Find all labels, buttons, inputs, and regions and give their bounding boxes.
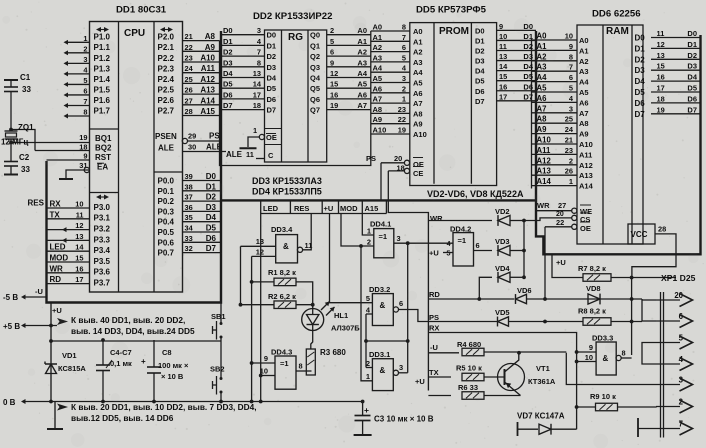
XP1 pin 5 — [656, 342, 680, 344]
svg-text:P3.3: P3.3 — [94, 235, 111, 244]
wire DD4.2 pin5 — [443, 252, 453, 254]
wire DD2 Q1 — [327, 44, 371, 46]
svg-text:P2.1: P2.1 — [158, 43, 175, 52]
bus top run to right — [221, 199, 536, 201]
svg-text:36: 36 — [185, 203, 193, 212]
svg-text:A0: A0 — [537, 32, 548, 41]
svg-text:38: 38 — [185, 182, 193, 191]
svg-text:Q6: Q6 — [310, 95, 320, 104]
svg-text:10: 10 — [499, 32, 507, 41]
svg-text:XP1 D25: XP1 D25 — [661, 273, 696, 283]
svg-text:DD3.1: DD3.1 — [369, 350, 390, 359]
svg-text:D4: D4 — [475, 67, 485, 76]
wire riser to RAM OE — [544, 227, 546, 299]
wire P1.1 pin 2 — [68, 52, 90, 54]
svg-text:A6: A6 — [373, 84, 383, 93]
wire DD2 D5 — [221, 87, 265, 89]
svg-text:D2: D2 — [223, 48, 233, 57]
svg-text:D5: D5 — [206, 224, 217, 233]
svg-text:P0.4: P0.4 — [158, 218, 175, 227]
svg-text:VD4: VD4 — [495, 264, 510, 273]
wire DD5 D1 — [497, 39, 536, 41]
wire A11 pin 24 — [183, 72, 220, 74]
svg-text:RX: RX — [429, 324, 439, 333]
svg-text:3: 3 — [569, 104, 573, 113]
svg-text:32: 32 — [185, 244, 193, 253]
svg-text:A0: A0 — [579, 36, 589, 45]
DD2 box — [265, 30, 327, 162]
svg-text:RD: RD — [429, 290, 440, 299]
wire P3.3 pin 13 — [47, 239, 90, 241]
svg-text:5: 5 — [330, 37, 334, 46]
svg-text:LED: LED — [263, 204, 279, 213]
wire DD2 D4 — [221, 77, 265, 79]
svg-text:1: 1 — [367, 227, 371, 236]
wire DD6 D6 — [651, 102, 701, 104]
LED HL1 AL307B — [302, 309, 324, 331]
svg-text:VT1: VT1 — [536, 364, 550, 373]
svg-text:10: 10 — [585, 353, 593, 362]
svg-text:23: 23 — [185, 54, 193, 63]
svg-text:15: 15 — [330, 80, 338, 89]
wire DD5 A1 — [371, 40, 410, 42]
XP1 pin 4 — [656, 363, 680, 365]
svg-text:D2: D2 — [267, 52, 277, 61]
svg-text:D1: D1 — [687, 40, 697, 49]
svg-text:A3: A3 — [357, 58, 367, 67]
svg-text:13: 13 — [253, 69, 261, 78]
wire DD6 D1 — [651, 47, 701, 49]
svg-text:A6: A6 — [357, 90, 367, 99]
svg-text:RAM: RAM — [606, 26, 629, 37]
svg-text:14: 14 — [499, 62, 508, 71]
svg-text:PS: PS — [366, 154, 376, 163]
svg-text:19: 19 — [330, 101, 338, 110]
svg-text:A5: A5 — [373, 74, 383, 83]
svg-text:35: 35 — [185, 213, 193, 222]
svg-text:A6: A6 — [579, 98, 589, 107]
svg-text:5: 5 — [402, 53, 406, 62]
svg-text:27: 27 — [185, 96, 193, 105]
svg-text:8: 8 — [569, 52, 573, 61]
wire to DD2 C pin 11 — [256, 158, 265, 160]
svg-text:выв. 14 DD3, DD4, выв.24 DD5: выв. 14 DD3, DD4, выв.24 DD5 — [71, 326, 195, 336]
svg-text:8: 8 — [83, 108, 87, 117]
svg-text:5: 5 — [83, 76, 87, 85]
jumper XP1 5-4 — [642, 343, 656, 365]
wire P1.6 pin 7 — [68, 104, 90, 106]
svg-text:20: 20 — [394, 154, 402, 163]
wire DD5 D2 — [497, 50, 536, 52]
svg-text:&: & — [380, 366, 386, 375]
svg-text:R6 33: R6 33 — [458, 383, 478, 392]
wire DD2 Q0 — [327, 34, 371, 36]
svg-text:12 МГц: 12 МГц — [1, 138, 28, 147]
wire A8 pin 21 — [183, 40, 220, 42]
wire A10 pin 23 — [183, 61, 220, 63]
svg-text:1: 1 — [83, 34, 87, 43]
wire P3.7 pin 17 — [47, 283, 90, 285]
wire LED drop — [260, 214, 262, 402]
svg-text:19: 19 — [398, 126, 406, 135]
svg-text:A2: A2 — [373, 43, 383, 52]
svg-text:Q1: Q1 — [310, 41, 320, 50]
svg-text:A4: A4 — [413, 68, 423, 77]
wire D4 pin 35 — [183, 221, 222, 223]
wire DD5 A2 — [371, 51, 410, 53]
svg-text:A7: A7 — [373, 95, 383, 104]
wire BQ2 — [35, 150, 90, 152]
ground under C2 — [4, 174, 18, 176]
svg-text:P1.4: P1.4 — [94, 75, 111, 84]
wire P3.4 pin 14 — [47, 250, 90, 252]
svg-text:A10: A10 — [537, 136, 552, 145]
svg-text:27: 27 — [558, 201, 566, 210]
svg-text:31: 31 — [79, 161, 87, 170]
jumper XP1 20-6 — [641, 299, 643, 321]
ground at DD2 OE — [240, 147, 257, 149]
svg-text:D4: D4 — [687, 73, 697, 82]
svg-text:PS: PS — [429, 313, 439, 322]
svg-text:13: 13 — [256, 237, 264, 246]
svg-text:+U: +U — [52, 306, 62, 315]
svg-text:OE: OE — [580, 224, 591, 233]
wire DD5 D5 — [497, 80, 536, 82]
svg-text:D1: D1 — [635, 44, 646, 53]
svg-text:BQ2: BQ2 — [95, 144, 112, 153]
wire C1 to crystal — [10, 92, 12, 132]
svg-text:13: 13 — [75, 232, 83, 241]
svg-text:+U: +U — [324, 204, 334, 213]
svg-text:D0: D0 — [223, 26, 233, 35]
svg-text:D7: D7 — [267, 106, 277, 115]
svg-text:D7: D7 — [206, 244, 217, 253]
svg-text:14: 14 — [75, 243, 84, 252]
wire MOD to DD4.1 pin2 — [341, 214, 374, 247]
svg-text:RD: RD — [50, 275, 62, 284]
svg-text:21: 21 — [565, 136, 573, 145]
svg-text:A7: A7 — [413, 99, 423, 108]
svg-text:P2.4: P2.4 — [158, 75, 175, 84]
svg-text:2: 2 — [569, 156, 573, 165]
svg-text:VD5: VD5 — [495, 308, 510, 317]
svg-text:VD8: VD8 — [586, 284, 601, 293]
svg-text:6: 6 — [399, 299, 403, 308]
svg-text:A9: A9 — [413, 120, 423, 129]
svg-text:C1: C1 — [20, 73, 31, 82]
svg-text:11: 11 — [246, 150, 254, 159]
svg-text:A9: A9 — [373, 115, 383, 124]
svg-text:9: 9 — [264, 354, 268, 363]
svg-text:28: 28 — [185, 107, 193, 116]
svg-text:A12: A12 — [200, 75, 215, 84]
svg-text:D0: D0 — [687, 29, 697, 38]
svg-text:A3: A3 — [373, 53, 383, 62]
svg-text:P3.7: P3.7 — [94, 279, 111, 288]
svg-text:выв.12 DD5, выв. 14 DD6: выв.12 DD5, выв. 14 DD6 — [71, 413, 174, 423]
svg-text:P1.3: P1.3 — [94, 64, 111, 73]
svg-text:&: & — [283, 242, 289, 251]
wire DD6 D0 — [651, 37, 701, 39]
wire DD6 A5 — [532, 91, 578, 93]
svg-text:D2: D2 — [635, 55, 646, 64]
wire to RAM CS — [524, 218, 572, 221]
svg-text:A11: A11 — [579, 150, 592, 159]
wire diode OR vertical — [523, 221, 525, 278]
svg-text:=1: =1 — [379, 232, 388, 241]
svg-text:15: 15 — [499, 72, 507, 81]
svg-text:SB1: SB1 — [211, 312, 226, 321]
wire DD2 D0 — [221, 34, 265, 36]
svg-text:P1.6: P1.6 — [94, 96, 111, 105]
svg-text:R7 8,2 к: R7 8,2 к — [578, 264, 606, 273]
svg-text:29: 29 — [188, 132, 196, 141]
wire A15 pin 28 — [183, 115, 220, 117]
wire DD6 D4 — [651, 80, 701, 82]
svg-text:A15: A15 — [365, 204, 379, 213]
svg-text:D5: D5 — [223, 80, 233, 89]
VT1 collector — [505, 352, 519, 372]
svg-text:21: 21 — [185, 32, 193, 41]
wire DD4.3 pin10 — [261, 375, 275, 377]
svg-text:3: 3 — [257, 26, 261, 35]
svg-text:VD2: VD2 — [495, 207, 510, 216]
CPU DD1 box — [90, 22, 183, 293]
wire collector to XP1 pin3 — [566, 353, 656, 385]
svg-text:C2: C2 — [19, 153, 30, 162]
svg-text:11: 11 — [499, 42, 507, 51]
svg-text:D3: D3 — [523, 52, 533, 61]
wire DD3.1 out — [399, 372, 408, 374]
svg-text:ALE: ALE — [158, 144, 175, 153]
svg-text:RES: RES — [294, 204, 309, 213]
svg-text:DD5 КР573РФ5: DD5 КР573РФ5 — [416, 5, 487, 16]
wire DD2 D7 — [221, 109, 265, 111]
svg-text:3: 3 — [402, 74, 406, 83]
wire DD2 Q5 — [327, 87, 371, 89]
ground at EA — [59, 178, 73, 180]
svg-text:DD3.3: DD3.3 — [592, 334, 613, 343]
wire DD5 A5 — [371, 82, 410, 84]
svg-text:A0: A0 — [413, 27, 423, 36]
wire DD6 A0 — [532, 39, 578, 41]
svg-text:P0.0: P0.0 — [158, 177, 175, 186]
wire DD2 Q2 — [327, 55, 371, 57]
wire DD5 A7 — [371, 102, 410, 104]
wire DD2 D6 — [221, 98, 265, 100]
wire DD5 A9 — [371, 123, 410, 125]
wire DD3.1 pin2 — [366, 367, 372, 369]
svg-text:BQ1: BQ1 — [95, 134, 112, 143]
wire DD2 D2 — [221, 55, 265, 57]
wire PS to PROM OE — [381, 162, 404, 164]
svg-text:P3.4: P3.4 — [94, 246, 111, 255]
svg-text:0 В: 0 В — [3, 398, 16, 407]
svg-text:CE: CE — [413, 169, 423, 178]
svg-text:Q7: Q7 — [310, 106, 320, 115]
svg-text:16: 16 — [657, 73, 665, 82]
svg-text:КС815А: КС815А — [58, 364, 86, 373]
svg-text:8: 8 — [622, 349, 626, 358]
svg-text:D6: D6 — [223, 90, 233, 99]
svg-text:D4: D4 — [206, 213, 217, 222]
wire DD6 A14 — [532, 185, 578, 187]
svg-text:DD4 КР1533ЛП5: DD4 КР1533ЛП5 — [252, 187, 322, 197]
svg-text:P1.7: P1.7 — [94, 106, 111, 115]
wire VCC to R7 node — [632, 234, 676, 278]
svg-text:P2.6: P2.6 — [158, 96, 175, 105]
svg-text:D4: D4 — [635, 77, 646, 86]
wire DD2 Q6 — [327, 98, 371, 100]
RAM address bus — [531, 39, 533, 189]
wire DD3.4 pin13 — [241, 245, 276, 247]
svg-text:39: 39 — [185, 172, 193, 181]
svg-text:WR: WR — [430, 214, 443, 223]
svg-text:A4: A4 — [579, 78, 589, 87]
svg-text:R2 6,2 к: R2 6,2 к — [268, 292, 296, 301]
wire DD5 D7 — [497, 100, 536, 102]
svg-text:A3: A3 — [579, 67, 589, 76]
svg-text:P2.2: P2.2 — [158, 54, 175, 63]
wire WR — [428, 220, 492, 222]
harness breakout cells LED RES +U MOD A15 — [260, 202, 262, 214]
svg-text:=1: =1 — [458, 236, 467, 245]
svg-text:37: 37 — [185, 193, 193, 202]
wire DD3.4 pin12 — [252, 255, 276, 257]
svg-text:P2.3: P2.3 — [158, 64, 175, 73]
wire DD6 D7 — [651, 113, 701, 115]
wire DD5 A3 — [371, 61, 410, 63]
wire D0 pin 39 — [183, 180, 222, 182]
svg-text:D4: D4 — [523, 62, 533, 71]
svg-text:15: 15 — [75, 254, 83, 263]
svg-text:PS: PS — [209, 132, 220, 141]
svg-text:8: 8 — [257, 58, 261, 67]
svg-text:R5 10 к: R5 10 к — [456, 364, 482, 373]
svg-text:R3 680: R3 680 — [320, 348, 346, 357]
svg-text:1: 1 — [402, 95, 406, 104]
svg-text:1: 1 — [569, 177, 573, 186]
wire DD6 D2 — [651, 58, 701, 60]
svg-text:26: 26 — [565, 167, 573, 176]
svg-text:TX: TX — [50, 210, 61, 219]
wire DD5 A0 — [371, 30, 410, 32]
capacitors C4-C7 0.1uF — [102, 340, 104, 365]
svg-text:28: 28 — [658, 225, 666, 234]
XP1 pin 6 — [656, 320, 680, 322]
VCC cell — [628, 224, 655, 244]
svg-text:P0.2: P0.2 — [158, 197, 175, 206]
svg-text:-U: -U — [35, 287, 43, 296]
svg-text:6: 6 — [569, 73, 573, 82]
svg-text:11: 11 — [657, 29, 665, 38]
svg-text:D1: D1 — [475, 36, 485, 45]
svg-text:100 мк ×: 100 мк × — [158, 361, 189, 370]
svg-text:D0: D0 — [635, 34, 646, 43]
svg-text:Q5: Q5 — [310, 84, 320, 93]
wire to chassis ground — [54, 402, 56, 429]
wire node vertical — [631, 278, 633, 356]
wire DD2 Q3 — [327, 66, 371, 68]
svg-text:D0: D0 — [206, 172, 217, 181]
XP1 pin 3 — [656, 384, 680, 386]
svg-text:R9 10 к: R9 10 к — [590, 392, 616, 401]
svg-text:A8: A8 — [579, 119, 589, 128]
svg-text:A7: A7 — [537, 104, 547, 113]
svg-text:2: 2 — [330, 26, 334, 35]
wire DD3.2 out to PS line — [399, 310, 429, 322]
crystal ZQ1 — [5, 130, 18, 132]
svg-text:12: 12 — [657, 40, 665, 49]
capacitor C2 — [4, 161, 18, 163]
svg-text:A5: A5 — [413, 79, 423, 88]
wire DD6 A11 — [532, 153, 578, 155]
svg-text:D2: D2 — [523, 42, 533, 51]
wire MOD net to DD3.1 pin1 — [361, 246, 372, 381]
wire DD6 A12 — [532, 164, 578, 166]
wire DD5 A10 — [371, 133, 410, 135]
wire P3.0 pin 10 — [47, 207, 90, 209]
svg-text:12: 12 — [330, 69, 338, 78]
svg-text:+U: +U — [556, 258, 566, 267]
wire RD — [428, 298, 514, 300]
svg-text:5: 5 — [366, 294, 370, 303]
wire PS — [187, 140, 221, 142]
XP1 pin7 ground bar — [637, 418, 639, 437]
svg-text:A11: A11 — [537, 146, 552, 155]
wire DD5 D4 — [497, 70, 536, 72]
wire RX — [428, 333, 576, 430]
svg-text:A3: A3 — [413, 58, 423, 67]
svg-text:Q3: Q3 — [310, 63, 320, 72]
svg-text:A7: A7 — [579, 109, 589, 118]
svg-text:D4: D4 — [267, 74, 277, 83]
svg-text:15: 15 — [657, 62, 665, 71]
svg-text:A14: A14 — [579, 182, 594, 191]
node crystal top — [9, 128, 13, 132]
wire A12 pin 25 — [183, 82, 220, 84]
svg-text:19: 19 — [79, 133, 87, 142]
svg-text:D6: D6 — [267, 95, 277, 104]
svg-text:34: 34 — [185, 224, 194, 233]
svg-text:A13: A13 — [579, 171, 593, 180]
svg-text:10: 10 — [75, 200, 83, 209]
svg-text:A7: A7 — [357, 101, 367, 110]
svg-text:WR: WR — [50, 264, 64, 273]
svg-text:-U: -U — [430, 343, 438, 352]
svg-text:23: 23 — [565, 146, 573, 155]
svg-text:A1: A1 — [537, 42, 548, 51]
svg-text:D6: D6 — [206, 234, 217, 243]
svg-text:2: 2 — [83, 44, 87, 53]
wire DD3.2 pin4 — [366, 313, 372, 315]
resistor R3 680 — [306, 349, 315, 375]
svg-text:14: 14 — [253, 80, 262, 89]
svg-text:A10: A10 — [200, 54, 215, 63]
wire WR to RAM WE — [536, 210, 572, 212]
wire P3.5 pin 15 — [47, 261, 90, 263]
svg-text:DD3 КР1533ЛА3: DD3 КР1533ЛА3 — [252, 176, 322, 186]
svg-text:SB2: SB2 — [210, 365, 225, 374]
wire DD6 D5 — [651, 91, 701, 93]
svg-text:9: 9 — [83, 152, 87, 161]
svg-text:D3: D3 — [267, 63, 277, 72]
svg-text:Q0: Q0 — [310, 31, 320, 40]
svg-text:A13: A13 — [537, 167, 552, 176]
wire DD6 A2 — [532, 60, 578, 62]
svg-text:A4: A4 — [373, 64, 383, 73]
wire D3 pin 36 — [183, 210, 222, 212]
